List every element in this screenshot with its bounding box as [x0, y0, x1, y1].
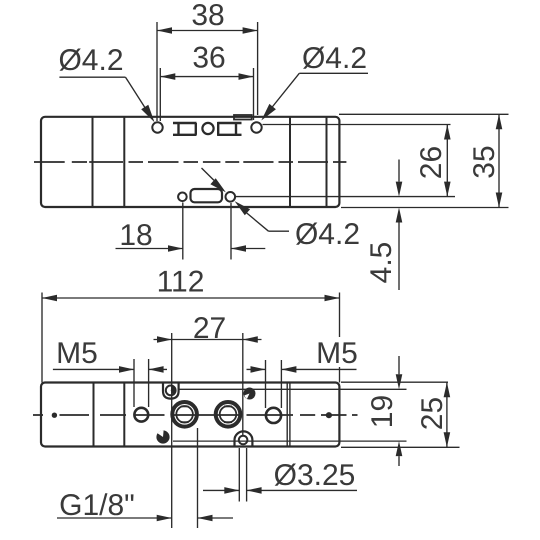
dimension G1/8": [57, 517, 233, 519]
svg-text:Ø3.25: Ø3.25: [274, 459, 356, 492]
extension line 25 top: [341, 381, 448, 383]
dimension 25: [446, 382, 448, 447]
top view division line left1: [92, 117, 94, 207]
svg-text:18: 18: [119, 219, 152, 252]
top mounting hole left Ø4.2: [152, 122, 162, 132]
dimension 27: [154, 339, 262, 341]
top view centerline: [34, 161, 346, 163]
svg-text:19: 19: [366, 395, 399, 428]
top face circle feature: [202, 123, 213, 134]
dimension 112: [42, 297, 340, 299]
top face bracket feature B: [218, 122, 242, 136]
extension line 26 top: [263, 124, 451, 126]
svg-text:Ø4.2: Ø4.2: [302, 42, 367, 75]
top face thin rectangle feature: [234, 115, 252, 120]
top view division line left2: [123, 117, 125, 207]
bottom view division line left2: [123, 383, 125, 447]
lower pilot hole right Ø4.2: [226, 192, 236, 202]
label Ø4.2 top-left with leader: [59, 77, 150, 115]
centerline dot left: [52, 413, 57, 418]
dimension M5 right: [247, 360, 357, 408]
svg-text:Ø4.2: Ø4.2: [58, 44, 123, 77]
top view division line right2: [326, 117, 328, 207]
dimension M5 left: [53, 359, 167, 407]
label Ø4.2 top-right with leader: [265, 73, 368, 116]
dimension 38: [157, 22, 258, 121]
extension line 27 right / pilot: [242, 333, 244, 436]
bottom view internal edge lower: [173, 440, 407, 442]
svg-text:38: 38: [191, 0, 224, 32]
port 1 G1/8 outer ring: [172, 402, 197, 427]
pilot pocket top (U shape): [163, 383, 179, 399]
svg-text:G1/8": G1/8": [59, 489, 135, 522]
label Ø4.2 bottom-right with double leader: [202, 168, 290, 231]
bottom view internal edge upper: [178, 388, 407, 390]
svg-text:25: 25: [416, 397, 449, 430]
extension line 27 left / G1/8 left: [171, 333, 173, 528]
port 1 inner circle: [176, 406, 193, 423]
pilot pocket wedge: [171, 386, 176, 395]
extension lines Ø3.25: [239, 448, 246, 502]
top view body outline: [41, 117, 339, 207]
dimension 4.5: [398, 160, 400, 291]
bottom view division double line right: [287, 383, 290, 447]
extension line G1/8 right: [197, 428, 199, 528]
extension line 112 left: [41, 293, 43, 383]
lower pilot hole left: [178, 193, 187, 202]
svg-text:M5: M5: [56, 337, 98, 370]
orifice mark lower-left: [156, 430, 169, 443]
lower slot feature: [191, 189, 223, 202]
dimension 36: [160, 68, 253, 121]
extension line 25 bottom: [341, 446, 460, 448]
svg-text:Ø4.2: Ø4.2: [295, 218, 360, 251]
svg-text:36: 36: [192, 41, 225, 74]
pilot pocket circle: [166, 386, 176, 396]
bottom view centerline: [33, 414, 358, 416]
dimension 35: [498, 114, 500, 207]
top view division line right1: [289, 117, 291, 207]
port 2 outer ring: [216, 402, 241, 427]
svg-text:26: 26: [415, 146, 448, 179]
dimension 26: [446, 125, 448, 197]
svg-text:4.5: 4.5: [365, 242, 398, 284]
extension line 112 right: [339, 293, 341, 383]
M5 hole left: [134, 408, 148, 422]
dimension 18: [116, 203, 266, 260]
bottom view body outline: [41, 383, 339, 447]
bottom view division line left1: [93, 383, 95, 447]
M5 hole right: [266, 408, 281, 423]
dimension 19: [398, 356, 400, 466]
extension line 35 bottom: [341, 207, 509, 209]
dimension Ø3.25: [203, 489, 357, 491]
svg-text:27: 27: [193, 312, 226, 345]
bottom arch pocket: [235, 431, 253, 446]
svg-text:112: 112: [157, 266, 205, 299]
orifice mark upper-right: [244, 388, 256, 400]
port 2 inner circle: [220, 406, 237, 423]
extension line 35 top: [339, 113, 509, 115]
svg-text:M5: M5: [316, 337, 358, 370]
svg-text:35: 35: [468, 145, 501, 178]
extension line 26 bottom / pilot line: [236, 196, 456, 198]
top face bracket feature A: [173, 122, 197, 136]
centerline dot right: [326, 412, 332, 418]
top mounting hole right Ø4.2: [251, 122, 261, 132]
bottom arch circle Ø3.25: [239, 436, 248, 445]
